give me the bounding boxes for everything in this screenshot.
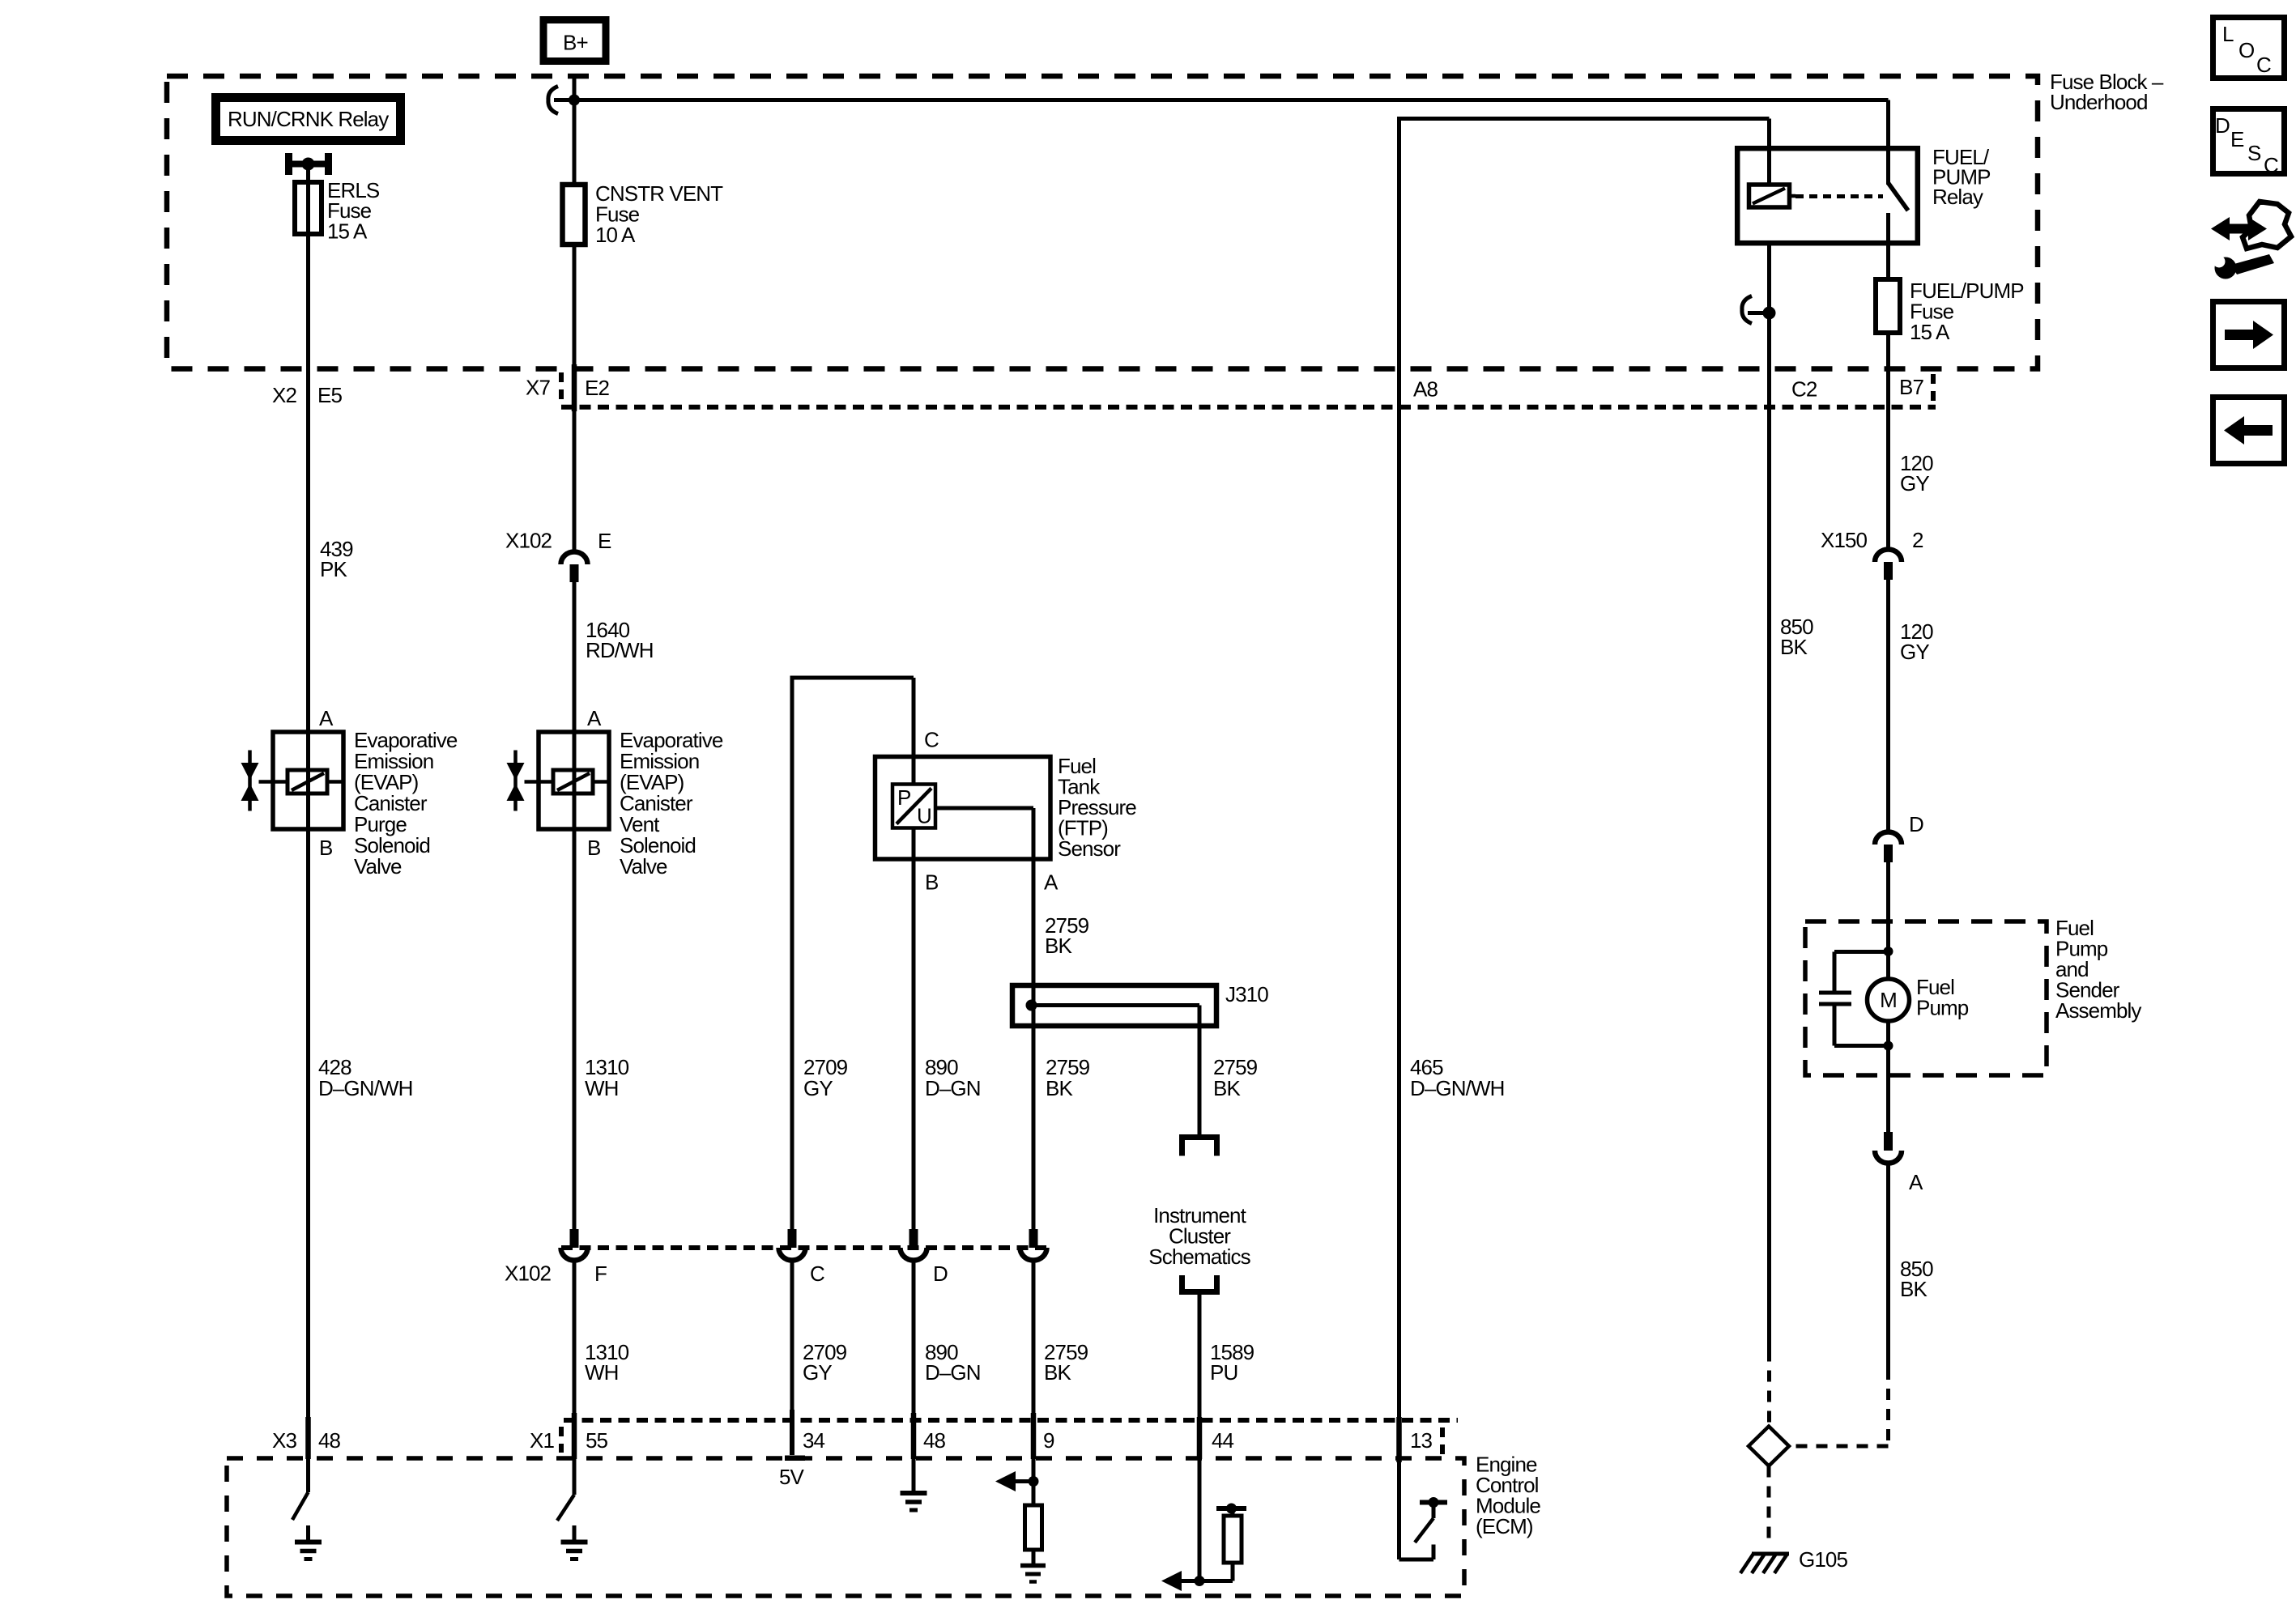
fuse CNSTR VENT 10A bbox=[563, 185, 586, 245]
label 439 PK bbox=[320, 537, 353, 581]
pin A label bbox=[1044, 870, 1059, 895]
label 9 bbox=[1043, 1428, 1054, 1453]
svg-text:Valve: Valve bbox=[354, 854, 402, 879]
wire 850 BK from relay coil (C2 column) bbox=[1767, 243, 1771, 1351]
pin B purge bbox=[319, 836, 332, 860]
battery feed symbol B+ bbox=[543, 20, 606, 62]
svg-text:C: C bbox=[2264, 153, 2278, 177]
label 1589 PU bbox=[1210, 1340, 1254, 1385]
svg-text:13: 13 bbox=[1410, 1428, 1433, 1453]
svg-text:X102: X102 bbox=[505, 529, 552, 553]
svg-text:Relay: Relay bbox=[1932, 185, 1983, 209]
label G105 bbox=[1799, 1547, 1847, 1572]
ECM 5V reference (pin 34) bbox=[779, 1456, 805, 1490]
label E pin bbox=[598, 529, 611, 553]
wire B+ feed horizontal to fuel pump relay bbox=[574, 100, 1889, 149]
svg-text:B: B bbox=[319, 836, 332, 860]
icon forward arrow box bbox=[2213, 302, 2285, 368]
svg-text:A8: A8 bbox=[1413, 377, 1438, 402]
wire 2709 GY lower bbox=[790, 1261, 794, 1455]
label 1640 RD/WH bbox=[586, 618, 654, 662]
svg-text:10 A: 10 A bbox=[595, 223, 636, 247]
dashed ground wire from C2 column bbox=[1767, 1351, 1771, 1424]
splice hook at B+ junction bbox=[548, 87, 580, 114]
connector X102-C on 2709 GY bbox=[779, 1229, 806, 1260]
svg-text:15 A: 15 A bbox=[1910, 320, 1950, 344]
fuel tank pressure sensor box bbox=[875, 757, 1051, 860]
svg-text:BK: BK bbox=[1044, 1360, 1071, 1385]
fuse FUEL/PUMP 15A bbox=[1876, 279, 1900, 333]
ECM relay control switch (pin 13) bbox=[1399, 1459, 1448, 1559]
label 2709 GY (lower) bbox=[803, 1340, 847, 1385]
FTP pin B wire bbox=[912, 828, 916, 860]
engine control module dashed box bbox=[227, 1458, 1464, 1596]
svg-text:48: 48 bbox=[923, 1428, 946, 1453]
svg-text:GY: GY bbox=[803, 1076, 833, 1100]
wire purge B down to ECM bbox=[306, 829, 310, 1417]
icon diagnostic wrench bbox=[2211, 202, 2291, 279]
label 2709 GY (mid) bbox=[803, 1055, 848, 1100]
label Engine Control Module (ECM) bbox=[1476, 1453, 1540, 1539]
fuel pump and sender assembly dashed box bbox=[1805, 921, 2047, 1075]
svg-text:Valve: Valve bbox=[620, 854, 667, 879]
label X150 bbox=[1821, 528, 1868, 552]
svg-text:B: B bbox=[587, 836, 600, 860]
svg-text:C: C bbox=[810, 1261, 824, 1286]
label 120 GY (lower) bbox=[1900, 619, 1933, 664]
RUN/CRNK Relay box bbox=[216, 98, 401, 141]
svg-text:P: P bbox=[897, 785, 910, 810]
wire 2759 BK sensor to J310 bbox=[1032, 859, 1036, 985]
svg-text:BK: BK bbox=[1046, 1076, 1073, 1100]
svg-text:Pump: Pump bbox=[1916, 996, 1969, 1020]
svg-text:55: 55 bbox=[586, 1428, 608, 1453]
label X7 bbox=[526, 376, 550, 400]
svg-text:WH: WH bbox=[585, 1360, 619, 1385]
svg-text:(ECM): (ECM) bbox=[1476, 1514, 1533, 1538]
separator right of B7 bbox=[1931, 374, 1936, 405]
connector fine-dash row bbox=[561, 405, 1936, 410]
svg-text:E2: E2 bbox=[585, 376, 609, 400]
label pin D (row) bbox=[933, 1261, 948, 1286]
relay coil-to-contact dashed link bbox=[1795, 194, 1883, 198]
EVAP canister vent solenoid valve box bbox=[539, 732, 609, 829]
separator X1 bbox=[559, 1427, 564, 1453]
connector X102-D on 890 D-GN bbox=[901, 1229, 927, 1260]
wire 1589 PU bbox=[1197, 1295, 1203, 1459]
wire 890 D-GN segment bbox=[912, 859, 916, 1229]
ECM driver switch to ground (pin X1-55) bbox=[557, 1459, 588, 1559]
svg-text:X2: X2 bbox=[272, 383, 296, 407]
wire 2759 BK below J310 bbox=[1032, 1026, 1036, 1229]
svg-text:Schematics: Schematics bbox=[1148, 1244, 1250, 1269]
dashed wire diamond to G105 bbox=[1767, 1466, 1771, 1543]
label Instrument Cluster Schematics bbox=[1148, 1203, 1250, 1269]
svg-text:Underhood: Underhood bbox=[2050, 90, 2148, 114]
label 2759 BK (lower) bbox=[1044, 1340, 1088, 1385]
label 34 bbox=[803, 1428, 825, 1453]
svg-text:Assembly: Assembly bbox=[2055, 998, 2141, 1023]
icon DESC box bbox=[2213, 109, 2285, 178]
svg-text:RUN/CRNK Relay: RUN/CRNK Relay bbox=[228, 107, 389, 131]
svg-text:D: D bbox=[933, 1261, 948, 1286]
svg-text:X7: X7 bbox=[526, 376, 550, 400]
label X2 bbox=[272, 383, 296, 407]
label Evaporative Emission (EVAP) Canister Purge Solenoid Valve bbox=[354, 728, 458, 879]
purge solenoid coil bbox=[273, 732, 343, 829]
svg-text:X1: X1 bbox=[530, 1428, 554, 1453]
svg-text:D–GN: D–GN bbox=[925, 1360, 981, 1385]
svg-text:44: 44 bbox=[1212, 1428, 1234, 1453]
svg-text:PU: PU bbox=[1210, 1360, 1237, 1385]
splice hook on C2 wire bbox=[1742, 296, 1776, 324]
svg-text:WH: WH bbox=[585, 1076, 619, 1100]
wire 439 PK / 428 D-GN/WH vertical (ERLS column) bbox=[305, 177, 311, 1459]
label Fuel Pump and Sender Assembly bbox=[2055, 916, 2141, 1023]
label 428 D-GN/WH bbox=[318, 1055, 412, 1100]
svg-text:A: A bbox=[1909, 1170, 1923, 1194]
vent solenoid valve symbol bbox=[507, 751, 539, 811]
svg-text:BK: BK bbox=[1213, 1076, 1241, 1100]
svg-text:48: 48 bbox=[318, 1428, 341, 1453]
svg-text:A: A bbox=[587, 706, 602, 730]
label E2 bbox=[585, 376, 609, 400]
icon LOC box bbox=[2213, 18, 2285, 79]
svg-text:2: 2 bbox=[1912, 528, 1923, 552]
svg-text:X3: X3 bbox=[272, 1428, 296, 1453]
label CNSTR VENT Fuse 10 A bbox=[595, 181, 723, 247]
pin B vent bbox=[587, 836, 600, 860]
svg-text:GY: GY bbox=[1900, 640, 1929, 664]
separator right of 13 bbox=[1440, 1427, 1445, 1457]
label A8 bbox=[1413, 377, 1438, 402]
svg-text:C: C bbox=[924, 728, 939, 752]
connector A below fuel pump bbox=[1875, 1132, 1902, 1163]
EVAP canister purge solenoid valve box bbox=[273, 732, 343, 829]
label 850 BK (left) bbox=[1780, 615, 1813, 659]
off-page bracket (top) bbox=[1182, 1138, 1217, 1156]
icon back arrow box bbox=[2213, 398, 2285, 464]
wire pump to connector A bbox=[1886, 1046, 1890, 1134]
label X102 (E row) bbox=[505, 529, 552, 553]
dashed ground wire from pump bbox=[1791, 1368, 1889, 1446]
label J310 bbox=[1225, 982, 1268, 1006]
svg-text:34: 34 bbox=[803, 1428, 825, 1453]
ECM fine-dash connector row bbox=[564, 1418, 1458, 1423]
label pin 2 bbox=[1912, 528, 1923, 552]
wire 465 D-GN/WH bbox=[1396, 117, 1769, 1462]
wire 2709 GY with top jog to sensor C bbox=[790, 678, 914, 1229]
label 13 bbox=[1410, 1428, 1433, 1453]
label 2759 BK (left mid) bbox=[1046, 1055, 1090, 1100]
svg-text:G105: G105 bbox=[1799, 1547, 1847, 1572]
fuse ERLS 15A bbox=[295, 182, 322, 234]
wire 2759 BK lower bbox=[1031, 1261, 1037, 1459]
svg-text:9: 9 bbox=[1043, 1428, 1054, 1453]
svg-text:J310: J310 bbox=[1225, 982, 1268, 1006]
label Fuel Pump bbox=[1916, 975, 1969, 1020]
svg-text:D–GN/WH: D–GN/WH bbox=[318, 1076, 412, 1100]
svg-text:RD/WH: RD/WH bbox=[586, 638, 654, 662]
svg-text:B+: B+ bbox=[563, 31, 588, 55]
svg-text:X150: X150 bbox=[1821, 528, 1868, 552]
capacitor branch across fuel pump bbox=[1819, 952, 1889, 1046]
svg-text:X102: X102 bbox=[505, 1261, 552, 1286]
label X3 bbox=[272, 1428, 296, 1453]
label Evaporative Emission (EVAP) Canister Vent Solenoid Valve bbox=[620, 728, 723, 879]
wire relay contact to FUEL/PUMP fuse bbox=[1886, 243, 1890, 279]
svg-text:GY: GY bbox=[1900, 471, 1929, 496]
svg-text:B: B bbox=[925, 870, 938, 895]
svg-text:GY: GY bbox=[803, 1360, 832, 1385]
vent solenoid coil bbox=[539, 732, 609, 829]
label B7 bbox=[1899, 375, 1923, 399]
ground G105 chassis symbol bbox=[1740, 1554, 1789, 1573]
pin A purge bbox=[319, 706, 334, 730]
label 890 D-GN (mid) bbox=[925, 1055, 981, 1100]
wire 1310 WH lower bbox=[572, 1261, 577, 1459]
svg-text:C: C bbox=[2256, 53, 2271, 77]
label X1 bbox=[530, 1428, 554, 1453]
connector X102 fine-dash row bbox=[561, 1245, 1049, 1250]
svg-text:D–GN: D–GN bbox=[925, 1076, 981, 1100]
label C2 bbox=[1791, 377, 1817, 402]
label 1310 WH (upper) bbox=[585, 1055, 629, 1100]
svg-text:D–GN/WH: D–GN/WH bbox=[1410, 1076, 1504, 1100]
svg-text:C2: C2 bbox=[1791, 377, 1817, 402]
label FUEL/PUMP Fuse 15 A bbox=[1910, 279, 2024, 344]
svg-text:BK: BK bbox=[1900, 1277, 1928, 1301]
label 120 GY (upper) bbox=[1900, 451, 1933, 496]
ECM input circuit (pin 9) bbox=[995, 1459, 1046, 1582]
FTP sensor transducer square bbox=[892, 757, 935, 828]
label 55 bbox=[586, 1428, 608, 1453]
label ERLS Fuse 15 A bbox=[327, 178, 380, 244]
fuse block - underhood dashed boundary box bbox=[167, 76, 2038, 369]
label 2759 BK (right mid) bbox=[1213, 1055, 1258, 1100]
connector X102-B on 2759 BK bbox=[1020, 1229, 1047, 1260]
svg-text:A: A bbox=[1044, 870, 1059, 895]
wire 120 GY (lower segment) bbox=[1886, 580, 1890, 831]
svg-text:PK: PK bbox=[320, 557, 347, 581]
svg-text:S: S bbox=[2247, 141, 2261, 165]
label pin C (row) bbox=[810, 1261, 824, 1286]
label 48 (X1) bbox=[923, 1428, 946, 1453]
svg-text:U: U bbox=[917, 804, 931, 828]
svg-text:F: F bbox=[594, 1261, 607, 1286]
relay contact switch bbox=[1889, 151, 1909, 243]
ECM output driver (pin 44) bbox=[1161, 1459, 1246, 1591]
splice J310 box bbox=[1012, 985, 1216, 1026]
label 44 bbox=[1212, 1428, 1234, 1453]
FTP internal wire to pin A bbox=[935, 808, 1033, 859]
svg-text:D: D bbox=[2215, 113, 2230, 138]
fuel pump motor M bbox=[1868, 947, 1910, 1051]
svg-text:E: E bbox=[2230, 127, 2244, 151]
pin B label bbox=[925, 870, 938, 895]
svg-text:L: L bbox=[2222, 22, 2234, 46]
wire 120 GY (B7 column upper) bbox=[1886, 333, 1890, 549]
svg-text:E: E bbox=[598, 529, 611, 553]
splice diamond bbox=[1749, 1427, 1789, 1466]
svg-text:Sensor: Sensor bbox=[1058, 836, 1121, 861]
svg-text:O: O bbox=[2238, 38, 2254, 62]
label Fuse Block - Underhood bbox=[2050, 70, 2164, 114]
label pin A (pump) bbox=[1909, 1170, 1923, 1194]
label 2759 BK (below sensor) bbox=[1045, 913, 1089, 958]
purge solenoid valve symbol bbox=[241, 751, 274, 811]
svg-text:15 A: 15 A bbox=[327, 219, 368, 244]
connector X102-E on wire 2 bbox=[561, 551, 588, 582]
connector X150-2 on 120 GY wire bbox=[1875, 550, 1902, 581]
wire 1640 RD/WH segment bbox=[573, 582, 577, 732]
label E5 bbox=[317, 383, 342, 407]
connector X102-F on wire 2 bbox=[561, 1229, 588, 1260]
label 850 BK (right) bbox=[1900, 1257, 1933, 1301]
wire into fuel pump assembly bbox=[1886, 862, 1890, 979]
off-page bracket (bottom) bbox=[1182, 1275, 1217, 1292]
connector D at fuel pump bbox=[1875, 832, 1902, 863]
relay coil bbox=[1749, 151, 1796, 207]
J310 internal junction and tap bbox=[1026, 985, 1200, 1134]
svg-text:BK: BK bbox=[1780, 635, 1808, 659]
svg-text:5V: 5V bbox=[779, 1465, 805, 1489]
separator X7/E2 bbox=[559, 372, 564, 402]
svg-text:A: A bbox=[319, 706, 334, 730]
label Fuel Tank Pressure (FTP) Sensor bbox=[1058, 754, 1136, 861]
pin C label bbox=[924, 728, 939, 752]
label FUEL/PUMP Relay bbox=[1932, 145, 1991, 209]
wire from B+ down (CNSTR VENT column) bbox=[572, 74, 577, 552]
wire 1310 WH segment (vent B down) bbox=[573, 829, 577, 1229]
relay contact bracket above ERLS fuse bbox=[285, 153, 332, 183]
label pin F bbox=[594, 1261, 607, 1286]
FUEL/PUMP relay box bbox=[1737, 148, 1918, 243]
ECM driver switch to ground (pin X3-48) bbox=[292, 1458, 322, 1559]
svg-text:D: D bbox=[1909, 812, 1923, 836]
label 1310 WH (lower) bbox=[585, 1340, 629, 1385]
wire 850 BK (right column) bbox=[1886, 1165, 1890, 1369]
label 465 D-GN/WH bbox=[1410, 1055, 1504, 1100]
pin A vent bbox=[587, 706, 602, 730]
svg-text:M: M bbox=[1880, 988, 1897, 1012]
ECM ground (pin 48) bbox=[901, 1459, 927, 1510]
svg-text:B7: B7 bbox=[1899, 375, 1923, 399]
label 48 (X3) bbox=[318, 1428, 341, 1453]
label X102 (F row) bbox=[505, 1261, 552, 1286]
label 890 D-GN (lower) bbox=[925, 1340, 981, 1385]
svg-text:BK: BK bbox=[1045, 934, 1072, 958]
wire 890 D-GN lower bbox=[911, 1261, 917, 1459]
label pin D bbox=[1909, 812, 1923, 836]
svg-text:E5: E5 bbox=[317, 383, 342, 407]
